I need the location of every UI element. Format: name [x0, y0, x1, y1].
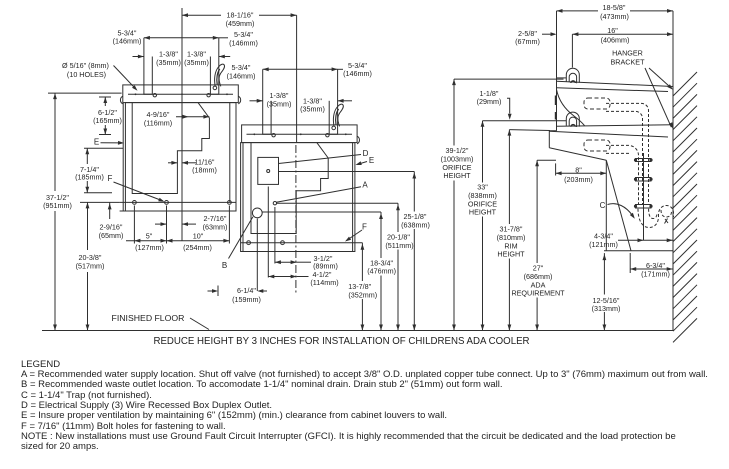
svg-text:(511mm): (511mm) [385, 241, 413, 250]
dimension 5 (127mm) and 10 (254mm) [126, 240, 229, 242]
right rail side tab [357, 136, 359, 144]
lower drain pipe hidden [606, 145, 639, 205]
side view upper basin top [557, 81, 674, 86]
svg-text:(165mm): (165mm) [93, 116, 122, 125]
side view front lip [549, 131, 556, 148]
dimension 6-1/2 (165mm) [104, 97, 106, 106]
right unit cabinet [241, 143, 355, 252]
dimension 4-3/4 (121mm) [618, 239, 673, 241]
trap C hidden outline [638, 206, 674, 228]
extension from D box [267, 187, 269, 278]
left unit interior stepped outline [132, 103, 209, 194]
svg-text:(127mm): (127mm) [135, 243, 164, 252]
right cabinet bottom flange line (extends to 13-7/8 extension) [241, 242, 363, 244]
dimension 1-3/8 slot widths right unit [250, 100, 263, 102]
D reference line [279, 171, 415, 173]
dimension 4-9/16 (116mm) [176, 116, 209, 118]
svg-text:(63mm): (63mm) [203, 223, 228, 232]
svg-text:(517mm): (517mm) [76, 262, 105, 271]
svg-text:16": 16" [607, 26, 618, 35]
svg-text:(638mm): (638mm) [401, 221, 430, 230]
right rail slot 2 [329, 125, 337, 134]
svg-text:(146mm): (146mm) [343, 69, 372, 78]
dimension 18-5/8 (473mm) [557, 10, 599, 12]
water supply location A [273, 202, 276, 205]
side view back slope [606, 160, 631, 251]
dimension 3-1/2 (89mm) [275, 261, 297, 263]
wall hatching [673, 72, 697, 96]
side view bottom edge [604, 250, 673, 252]
dimension 25-1/8 (638mm) [413, 172, 415, 212]
dimension 16 (406mm) [572, 33, 673, 35]
center extension line left unit [181, 8, 183, 241]
right unit centerline (dash-dot) [295, 145, 297, 295]
left rail side tabs [120, 96, 122, 104]
svg-text:(171mm): (171mm) [641, 270, 670, 279]
svg-text:(254mm): (254mm) [183, 243, 212, 252]
dimension 1-3/8 slot widths left unit [133, 56, 144, 58]
left cabinet bottom flange line [120, 201, 236, 203]
B reference line [262, 211, 381, 213]
svg-text:(146mm): (146mm) [229, 38, 258, 47]
dimension 20-3/8 (517mm) [87, 202, 89, 250]
extension from A dot [274, 207, 276, 264]
electrical outlet box D [258, 157, 279, 184]
drain pipe centerline [643, 153, 645, 240]
svg-text:(473mm): (473mm) [600, 12, 629, 21]
dimension 6-3/4 (171mm) [630, 268, 673, 270]
right rail slot 1 [263, 125, 271, 134]
extension line front edge [556, 11, 558, 78]
dimension 5-3/4 right pair [263, 68, 338, 70]
slot extension lines right unit [262, 69, 264, 125]
dimension 31-7/8 rim height [509, 129, 550, 132]
svg-text:(35mm): (35mm) [267, 99, 292, 108]
svg-text:F: F [108, 174, 113, 183]
svg-text:(146mm): (146mm) [113, 37, 142, 46]
side view upper bubbler [566, 68, 579, 83]
dimension 39-1/2 orifice height [454, 78, 564, 80]
side view lower bubbler [566, 112, 579, 126]
svg-text:(459mm): (459mm) [226, 19, 255, 28]
dimension 8 (203mm) [556, 172, 607, 174]
svg-text:REQUIREMENT: REQUIREMENT [511, 289, 565, 298]
svg-text:B: B [222, 261, 227, 270]
right unit interior stepped outline [251, 143, 328, 234]
svg-text:(476mm): (476mm) [367, 267, 396, 276]
svg-text:(35mm): (35mm) [184, 58, 209, 67]
svg-text:E: E [94, 137, 99, 146]
dimension 11/16 (18mm) [168, 162, 177, 164]
side view lower basin rim line [549, 131, 668, 137]
side view upper basin rim second line [557, 88, 669, 92]
svg-text:5": 5" [146, 231, 153, 240]
finished floor line [42, 330, 673, 332]
left flange bolt holes F [133, 201, 137, 205]
extension from B circle [256, 219, 258, 292]
svg-text:E: E [369, 156, 374, 165]
svg-text:(114mm): (114mm) [310, 278, 338, 287]
pipe couplings [635, 158, 652, 160]
svg-text:D: D [363, 149, 369, 158]
legend text block [21, 359, 60, 370]
left rail slot 2 [210, 85, 218, 94]
svg-text:(203mm): (203mm) [564, 175, 593, 184]
right unit hanger rail [242, 125, 358, 143]
side view top cap [557, 77, 567, 79]
lower bowl hidden outline [584, 140, 610, 151]
svg-text:(951mm): (951mm) [43, 201, 72, 210]
dimension 18-3/4 (476mm) [380, 212, 382, 258]
right unit bubbler [333, 104, 343, 126]
svg-text:(146mm): (146mm) [227, 72, 256, 81]
svg-text:C: C [600, 201, 606, 210]
svg-text:(29mm): (29mm) [477, 97, 502, 106]
svg-text:HEIGHT: HEIGHT [443, 171, 471, 180]
side view upper unit underside [557, 90, 585, 126]
dimension 13-7/8 (352mm) [361, 243, 363, 281]
dimension 7-1/4 (185mm) [86, 148, 88, 164]
svg-text:Ø 5/16" (8mm): Ø 5/16" (8mm) [62, 61, 109, 70]
bottom dim extension lines [133, 206, 135, 244]
slot extension lines left unit [143, 38, 145, 85]
dimension 4-1/2 (114mm) [268, 276, 296, 278]
svg-text:BRACKET: BRACKET [611, 58, 646, 67]
svg-text:HANGER: HANGER [612, 49, 643, 58]
svg-text:HEIGHT: HEIGHT [497, 250, 525, 259]
svg-text:6-1/4": 6-1/4" [237, 286, 256, 295]
left unit cabinet [125, 103, 236, 211]
dimension 20-1/8 (511mm) [397, 203, 399, 232]
svg-text:HEIGHT: HEIGHT [469, 208, 497, 217]
upper bowl hidden outline [584, 98, 610, 109]
svg-text:(116mm): (116mm) [144, 118, 172, 127]
dimension 37-1/2 (951mm) overall height [54, 93, 56, 191]
center extension line right unit [296, 15, 298, 142]
A reference line [277, 202, 399, 204]
front edge vent slots [555, 96, 557, 106]
right flange bolt holes F [247, 241, 251, 245]
svg-text:A: A [362, 181, 368, 190]
svg-text:REDUCE HEIGHT BY 3 INCHES FOR: REDUCE HEIGHT BY 3 INCHES FOR INSTALLATI… [153, 336, 529, 347]
side view front edge [556, 78, 558, 131]
left rail slot 1 [144, 85, 152, 94]
svg-text:(159mm): (159mm) [232, 295, 261, 304]
dimension 27 ADA requirement [537, 159, 556, 161]
svg-text:18-5/8": 18-5/8" [603, 3, 626, 12]
svg-text:(313mm): (313mm) [592, 304, 621, 313]
svg-text:8": 8" [575, 165, 582, 174]
left unit bubbler [215, 64, 225, 86]
svg-text:(67mm): (67mm) [515, 37, 540, 46]
upper drain pipe hidden [606, 103, 649, 205]
dimension 33 orifice height [483, 120, 567, 122]
svg-text:(35mm): (35mm) [156, 58, 181, 67]
svg-text:10": 10" [193, 231, 204, 240]
side view lower basin top [557, 125, 674, 126]
svg-text:(352mm): (352mm) [348, 291, 377, 300]
svg-text:(35mm): (35mm) [300, 105, 325, 114]
dimension 5-3/4 left pair [144, 37, 219, 39]
svg-text:(18mm): (18mm) [192, 166, 217, 175]
svg-text:F: F [362, 222, 367, 231]
side view underside slant [549, 148, 606, 161]
svg-text:(406mm): (406mm) [601, 36, 630, 45]
svg-text:(10 HOLES): (10 HOLES) [67, 70, 106, 79]
dimension 2-9/16 (65mm) [109, 202, 111, 219]
dimension 12-5/16 (313mm) [603, 253, 605, 294]
dimension 6-1/4 (159mm) [217, 286, 219, 297]
dimension 18-1/16 (459mm) [182, 14, 221, 16]
svg-text:(185mm): (185mm) [75, 173, 104, 182]
wall line [672, 11, 674, 331]
svg-text:FINISHED FLOOR: FINISHED FLOOR [112, 313, 185, 323]
left rail holes [153, 94, 156, 97]
svg-text:(65mm): (65mm) [99, 231, 124, 240]
right rail holes [272, 134, 275, 137]
left unit hanger rail [123, 85, 239, 103]
svg-text:(121mm): (121mm) [589, 240, 618, 249]
waste outlet location B [252, 208, 262, 218]
dimension 2-7/16 (63mm) [155, 223, 167, 225]
